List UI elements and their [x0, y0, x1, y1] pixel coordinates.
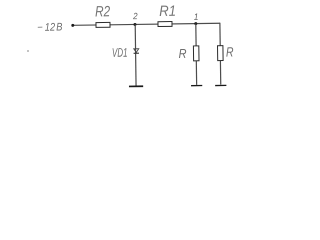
svg-text:VD1: VD1	[112, 47, 128, 60]
svg-text:1: 1	[194, 11, 199, 22]
svg-text:2: 2	[132, 11, 138, 22]
svg-text:R2: R2	[95, 3, 111, 20]
svg-text:R: R	[226, 44, 234, 60]
svg-text:R1: R1	[159, 2, 176, 19]
svg-text:−12В: −12В	[37, 22, 63, 34]
svg-text:R: R	[179, 46, 187, 61]
